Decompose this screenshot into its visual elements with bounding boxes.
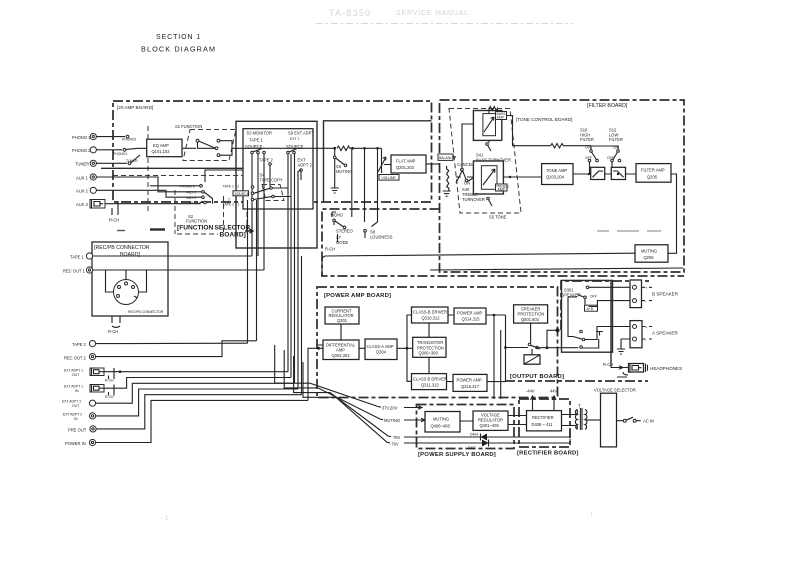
svg-text:TUNER: TUNER bbox=[75, 162, 89, 167]
svg-text:Q206: Q206 bbox=[644, 255, 655, 260]
svg-text:ON: ON bbox=[464, 181, 470, 186]
svg-text:ADPT 2: ADPT 2 bbox=[298, 163, 313, 168]
wire 76V rails into transformer area bbox=[569, 431, 571, 443]
filter LPF symbol bbox=[611, 167, 625, 179]
svg-text:FILTER AMP: FILTER AMP bbox=[641, 168, 665, 173]
svg-text:OFF: OFF bbox=[585, 156, 592, 160]
label 37V,20V feed bbox=[382, 406, 422, 411]
switch S4 TAPE COPY bbox=[223, 173, 292, 207]
phono/tuner selector contacts bbox=[113, 135, 147, 165]
wire filter chain bbox=[573, 173, 677, 254]
svg-text:EXT ADPT 2: EXT ADPT 2 bbox=[62, 400, 81, 404]
connector REC OUT 2 bbox=[64, 341, 257, 361]
board outline POWER AMP BOARD bbox=[317, 287, 558, 398]
board outline TONE/FILTER outer board bbox=[440, 100, 685, 272]
svg-text:TAPE 1: TAPE 1 bbox=[249, 138, 264, 143]
pot BALANCE label box bbox=[438, 154, 456, 160]
input connector AUX 1 bbox=[76, 174, 202, 192]
wire muting to regulator bbox=[460, 416, 527, 425]
svg-text:OUT: OUT bbox=[72, 404, 79, 408]
label FUNCTION SELECTOR BOARD bbox=[117, 225, 253, 239]
svg-text:MUTING: MUTING bbox=[433, 417, 449, 422]
svg-text:PHONO 1: PHONO 1 bbox=[72, 135, 91, 140]
connector TAPE 1 bbox=[70, 253, 252, 260]
driver CLASS B DRIVER Q311,313 bbox=[412, 374, 447, 390]
svg-text:R-CH: R-CH bbox=[108, 329, 118, 334]
solid inner box around volume/flat amp bbox=[324, 121, 432, 202]
pot BASS unit bbox=[462, 107, 507, 169]
svg-text:POWER IN: POWER IN bbox=[65, 441, 86, 446]
wire main signal through monitor box bbox=[243, 146, 382, 150]
svg-text:A SPEAKER: A SPEAKER bbox=[652, 331, 678, 336]
svg-text:R-CH: R-CH bbox=[325, 247, 335, 252]
svg-text:R-CH: R-CH bbox=[105, 379, 114, 383]
svg-text:[TONE CONTROL BOARD]: [TONE CONTROL BOARD] bbox=[516, 117, 572, 122]
svg-text:R-CH: R-CH bbox=[603, 362, 613, 367]
svg-text:R-CH: R-CH bbox=[105, 395, 114, 399]
switch S8 LOUDNESS bbox=[364, 229, 393, 239]
svg-text:S5 TONE: S5 TONE bbox=[489, 215, 507, 220]
svg-text:44V: 44V bbox=[550, 389, 558, 394]
wire R-CH long return line to muting bbox=[322, 247, 635, 259]
svg-text:REC/PB CONNECTOR: REC/PB CONNECTOR bbox=[128, 310, 164, 314]
svg-text:BOARD]: BOARD] bbox=[120, 252, 140, 258]
svg-text:-: - bbox=[645, 338, 647, 343]
board outline 20 AMP BOARD bbox=[113, 101, 432, 202]
svg-text:EQ AMP: EQ AMP bbox=[153, 143, 169, 148]
svg-text:CANCEL: CANCEL bbox=[457, 162, 474, 167]
svg-text:AUX 3: AUX 3 bbox=[76, 202, 89, 207]
wire REC line bbox=[101, 167, 243, 169]
board outline RECTIFIER BOARD bbox=[517, 399, 579, 457]
driver CLASS-B DRIVER Q310,312 bbox=[412, 307, 449, 323]
resistor R volume feed bbox=[337, 146, 351, 150]
svg-text:EXT 1: EXT 1 bbox=[290, 137, 299, 141]
svg-text:-44V: -44V bbox=[526, 389, 535, 394]
svg-text:Q316,317: Q316,317 bbox=[461, 384, 480, 389]
svg-text:Q302,303: Q302,303 bbox=[332, 353, 351, 358]
relay and switch on output board bbox=[524, 328, 578, 364]
svg-text:TAPE 2: TAPE 2 bbox=[259, 158, 274, 163]
svg-text:MUTING: MUTING bbox=[384, 418, 400, 423]
svg-text:-76V: -76V bbox=[390, 442, 399, 447]
svg-text:Q314,315: Q314,315 bbox=[462, 317, 481, 322]
svg-text:MUTING: MUTING bbox=[641, 248, 657, 253]
switch S41 BASS TURNOVER bbox=[476, 140, 511, 162]
svg-text:STEREO: STEREO bbox=[336, 229, 353, 234]
switch S5 tone cancel bbox=[456, 162, 474, 186]
svg-text:VOLTAGE SELECTOR: VOLTAGE SELECTOR bbox=[594, 388, 636, 393]
svg-text:PHONO 2: PHONO 2 bbox=[180, 184, 195, 188]
input connector TUNER bbox=[75, 160, 127, 166]
filter HPF symbol bbox=[591, 167, 605, 179]
svg-text:Q101,102: Q101,102 bbox=[152, 149, 171, 154]
svg-text:[FILTER BOARD]: [FILTER BOARD] bbox=[587, 103, 628, 109]
svg-text:FLAT AMP: FLAT AMP bbox=[396, 159, 416, 164]
svg-text:VOLUME: VOLUME bbox=[382, 176, 397, 180]
svg-text:MUTING: MUTING bbox=[336, 169, 352, 174]
svg-text:EXT ADPT 1: EXT ADPT 1 bbox=[64, 369, 83, 373]
svg-text:AC IN: AC IN bbox=[643, 419, 654, 424]
svg-text:TAPE 1: TAPE 1 bbox=[70, 255, 85, 260]
svg-text:Q306~309: Q306~309 bbox=[419, 351, 439, 356]
muting MUTING Q406~408 bbox=[425, 412, 460, 433]
svg-text:+: + bbox=[645, 325, 648, 330]
connector REC OUT 1 bbox=[63, 267, 264, 274]
svg-text:[REC/PB CONNECTOR: [REC/PB CONNECTOR bbox=[94, 245, 150, 251]
jack HEADPHONES bbox=[611, 364, 682, 378]
switch S12 LOW FILTER bbox=[591, 128, 623, 174]
switch S3 MONITOR contacts bbox=[245, 131, 274, 271]
svg-text:PHONO 2: PHONO 2 bbox=[72, 148, 91, 153]
svg-text:-: - bbox=[645, 299, 647, 304]
svg-text:OFF: OFF bbox=[590, 294, 597, 298]
svg-text:LOUDNESS: LOUDNESS bbox=[370, 235, 393, 240]
svg-text:PRE OUT: PRE OUT bbox=[68, 428, 87, 433]
svg-text:EXT ADPT 2: EXT ADPT 2 bbox=[63, 413, 82, 417]
label MUTING feed bbox=[384, 418, 425, 423]
svg-text:ON: ON bbox=[585, 145, 591, 150]
svg-text:IN: IN bbox=[74, 417, 78, 421]
rectifier RECTIFIER D408~411 bbox=[527, 411, 562, 431]
svg-text:TAPE 2: TAPE 2 bbox=[72, 342, 87, 347]
svg-text:TONE AMP: TONE AMP bbox=[546, 168, 567, 173]
svg-text:76V: 76V bbox=[393, 435, 401, 440]
regulator CURRENT REGULATOR Q301 bbox=[325, 307, 359, 324]
selector VOLTAGE SELECTOR bbox=[594, 388, 636, 447]
title SECTION 1 / BLOCK DIAGRAM bbox=[141, 34, 216, 54]
wire dashed aux feed bbox=[113, 175, 243, 177]
svg-text:POWER AMP: POWER AMP bbox=[457, 311, 483, 316]
pot TREBLE unit bbox=[473, 161, 510, 194]
svg-text:D407: D407 bbox=[468, 446, 476, 450]
svg-text:REC OUT 2: REC OUT 2 bbox=[64, 356, 86, 361]
input jack AUX 3 bbox=[76, 200, 204, 223]
rails -44V / 44V arrows bbox=[526, 389, 558, 411]
switch S10 HIGH FILTER bbox=[580, 128, 598, 174]
svg-text:FILTER: FILTER bbox=[580, 137, 594, 142]
amp FILTER AMP Q205 bbox=[636, 164, 671, 183]
svg-text:TAPE 2→1: TAPE 2→1 bbox=[223, 203, 240, 207]
connector TAPE 2 bbox=[72, 341, 248, 348]
connector block B SPEAKER bbox=[613, 280, 679, 308]
wire tone to tone amp bbox=[467, 176, 542, 178]
svg-text:CLASS-B DRIVER: CLASS-B DRIVER bbox=[413, 310, 447, 315]
svg-text:S9 EXT ADPT: S9 EXT ADPT bbox=[288, 131, 314, 136]
svg-text:AUX 1: AUX 1 bbox=[187, 191, 197, 195]
svg-text:Q205: Q205 bbox=[647, 175, 658, 180]
connector POWER IN bbox=[65, 400, 308, 446]
amp CLASS-A AMP Q304 bbox=[365, 339, 397, 360]
vertical wires to mode/loudness bbox=[352, 148, 378, 226]
svg-text:[POWER SUPPLY BOARD]: [POWER SUPPLY BOARD] bbox=[418, 452, 496, 458]
svg-text:[RECTIFIER BOARD]: [RECTIFIER BOARD] bbox=[517, 451, 579, 457]
protection SPEAKER PROTECTION Q501,502 bbox=[514, 305, 548, 323]
transformer T bbox=[562, 404, 601, 431]
wires power amp stage bbox=[341, 314, 531, 399]
label -76V feed + diode D407 bbox=[390, 440, 570, 451]
svg-text:B SPEAKER: B SPEAKER bbox=[652, 292, 679, 297]
svg-text:AMP: AMP bbox=[498, 188, 506, 192]
svg-text:POWER AMP: POWER AMP bbox=[457, 378, 483, 383]
svg-text:- 1 -: - 1 - bbox=[587, 512, 596, 518]
faint page header model number bbox=[316, 8, 573, 24]
svg-text:D404: D404 bbox=[470, 433, 478, 437]
svg-text:T: T bbox=[578, 404, 581, 409]
svg-text:CLASS-A AMP: CLASS-A AMP bbox=[367, 344, 394, 349]
svg-text:REC OUT 1: REC OUT 1 bbox=[63, 269, 85, 274]
svg-text:Q401~405: Q401~405 bbox=[480, 423, 500, 428]
svg-text:AMP: AMP bbox=[336, 348, 345, 353]
svg-text:Q203,204: Q203,204 bbox=[546, 175, 565, 180]
switch S1 FUNCTION bbox=[175, 124, 243, 161]
svg-text:A+B: A+B bbox=[587, 307, 594, 311]
svg-text:[FUNCTION: [FUNCTION bbox=[177, 225, 213, 232]
svg-text:OUT: OUT bbox=[72, 373, 79, 377]
svg-text:Q406~408: Q406~408 bbox=[431, 424, 451, 429]
svg-text:REGULATOR: REGULATOR bbox=[478, 418, 503, 423]
amp MUTING Q206 bbox=[635, 245, 668, 262]
svg-text:BOARD]: BOARD] bbox=[220, 232, 246, 239]
svg-text:TAPE 1→2: TAPE 1→2 bbox=[223, 185, 240, 189]
wire muting output to power amp input bbox=[317, 258, 323, 345]
board outline OUTPUT BOARD bbox=[505, 281, 650, 381]
svg-text:FILTER: FILTER bbox=[609, 137, 623, 142]
op-amp EQ AMP Q101,102 bbox=[147, 139, 182, 157]
potentiometer VOLUME bbox=[378, 148, 399, 180]
svg-text:[20 AMP BOARD]: [20 AMP BOARD] bbox=[117, 105, 153, 110]
svg-text:TA-8350: TA-8350 bbox=[329, 8, 371, 18]
svg-text:[OUTPUT BOARD]: [OUTPUT BOARD] bbox=[510, 374, 564, 380]
switch S7 MODE bbox=[331, 212, 353, 245]
regulator VOLTAGE REGULATOR Q401~405 bbox=[473, 411, 508, 430]
svg-text:PROTECTION: PROTECTION bbox=[518, 312, 545, 317]
svg-text:Q310,312: Q310,312 bbox=[422, 316, 441, 321]
svg-text:PHONO2: PHONO2 bbox=[122, 138, 136, 142]
svg-text:AUX 1: AUX 1 bbox=[76, 176, 89, 181]
svg-text:37V,20V: 37V,20V bbox=[382, 406, 398, 411]
connector EXT ADPT 2 OUT bbox=[62, 383, 295, 408]
S5 TONE dashed trapezoid bbox=[449, 109, 521, 220]
svg-text:FUNCTION: FUNCTION bbox=[186, 219, 207, 224]
svg-text:R-CH: R-CH bbox=[109, 218, 119, 223]
connector EXT ADPT 2 IN bbox=[63, 389, 298, 421]
input connector PHONO 1 bbox=[72, 134, 125, 141]
svg-text:SECTION 1: SECTION 1 bbox=[156, 34, 201, 41]
jack EXT ADPT 1 IN bbox=[64, 378, 291, 400]
jack EXT ADPT 1 OUT bbox=[64, 368, 288, 383]
svg-text:AUX 3: AUX 3 bbox=[189, 201, 199, 205]
svg-text:RECTIFIER: RECTIFIER bbox=[532, 415, 554, 420]
svg-text:- 3 -: - 3 - bbox=[161, 516, 172, 522]
svg-text:AUX 2: AUX 2 bbox=[187, 196, 197, 200]
pot balance arrow + resistor + ground bbox=[443, 166, 463, 196]
svg-text:2: 2 bbox=[228, 198, 230, 202]
svg-text:TAPE COPY: TAPE COPY bbox=[260, 178, 283, 183]
svg-text:PROTECTION: PROTECTION bbox=[417, 345, 444, 350]
R-CH bus to headphones bbox=[603, 281, 623, 369]
svg-text:EXT ADPT 1: EXT ADPT 1 bbox=[64, 385, 83, 389]
svg-text:[POWER AMP BOARD]: [POWER AMP BOARD] bbox=[324, 293, 391, 299]
amp POWER AMP Q316,317 bbox=[453, 374, 487, 391]
svg-text:TRANSISTOR: TRANSISTOR bbox=[417, 340, 443, 345]
svg-text:BLOCK DIAGRAM: BLOCK DIAGRAM bbox=[141, 45, 216, 54]
svg-text:AUX 2: AUX 2 bbox=[76, 189, 89, 194]
label 76V feed + diode D404 bbox=[393, 433, 570, 441]
switch S9 EXT ADPT contacts bbox=[286, 131, 314, 181]
svg-text:HEADPHONES: HEADPHONES bbox=[650, 366, 682, 371]
svg-text:OFF: OFF bbox=[607, 156, 614, 160]
monitor switch outer box bbox=[236, 121, 317, 248]
svg-text:Q304: Q304 bbox=[376, 350, 387, 355]
switch AC IN bbox=[617, 417, 654, 424]
svg-text:+: + bbox=[645, 286, 648, 291]
board outline FUNCTION SELECTOR dashed bbox=[148, 126, 247, 234]
ground below A speaker bbox=[617, 339, 630, 354]
input connector PHONO 2 bbox=[72, 147, 200, 186]
svg-text:S3 MONITOR: S3 MONITOR bbox=[247, 131, 272, 136]
svg-text:CLASS B DRIVER: CLASS B DRIVER bbox=[413, 376, 447, 381]
svg-text:SOURCE: SOURCE bbox=[235, 192, 250, 196]
switch S2 FUNCTION labels bbox=[180, 170, 244, 224]
svg-text:PHONO1: PHONO1 bbox=[113, 152, 127, 156]
svg-text:S1 FUNCTION: S1 FUNCTION bbox=[175, 124, 202, 129]
wire bundle verticals up to monitor switches bbox=[248, 154, 324, 400]
svg-text:Q301: Q301 bbox=[337, 318, 348, 323]
switch S301 SPEAKER box bbox=[562, 280, 613, 352]
board outline lower preamp section (mode/loudness area) bbox=[322, 209, 684, 276]
amp TONE AMP Q203,204 bbox=[542, 164, 573, 185]
switch S40 TREBLE TURNOVER bbox=[462, 187, 492, 206]
svg-text:Q201,202: Q201,202 bbox=[396, 165, 415, 170]
svg-text:Q501,502: Q501,502 bbox=[521, 317, 540, 322]
svg-text:TURNOVER: TURNOVER bbox=[462, 197, 485, 202]
op-amp FLAT AMP Q201,202 bbox=[391, 155, 439, 173]
svg-text:IN: IN bbox=[75, 389, 79, 393]
svg-text:AMP: AMP bbox=[497, 116, 505, 120]
monitor switch box bbox=[243, 129, 313, 209]
svg-text:SERVICE MANUAL: SERVICE MANUAL bbox=[396, 10, 469, 17]
connector PRE OUT bbox=[68, 395, 302, 433]
amp DIFFERENTIAL AMP Q302,303 bbox=[323, 340, 359, 360]
connector block A SPEAKER bbox=[613, 321, 679, 348]
faint dash artifacts bbox=[597, 230, 661, 232]
wire feeds to power supply bbox=[275, 345, 391, 443]
switch S6 MUTING bbox=[331, 148, 352, 193]
wire R-CH return line lower bbox=[430, 268, 683, 270]
protection TRANSISTOR PROTECTION Q306~309 bbox=[413, 337, 446, 357]
board outline REC/PB CONNECTOR BOARD bbox=[92, 242, 168, 316]
svg-text:Q311,313: Q311,313 bbox=[421, 382, 439, 387]
amp POWER AMP Q314,315 bbox=[454, 308, 486, 324]
wire bass feedback to filter bypass bbox=[507, 116, 592, 148]
DIN socket REC/PB CONNECTOR bbox=[106, 270, 164, 334]
input connector AUX 2 bbox=[76, 187, 202, 197]
svg-text:D408 ~ 411: D408 ~ 411 bbox=[532, 422, 554, 427]
board outline POWER SUPPLY BOARD bbox=[417, 405, 515, 459]
